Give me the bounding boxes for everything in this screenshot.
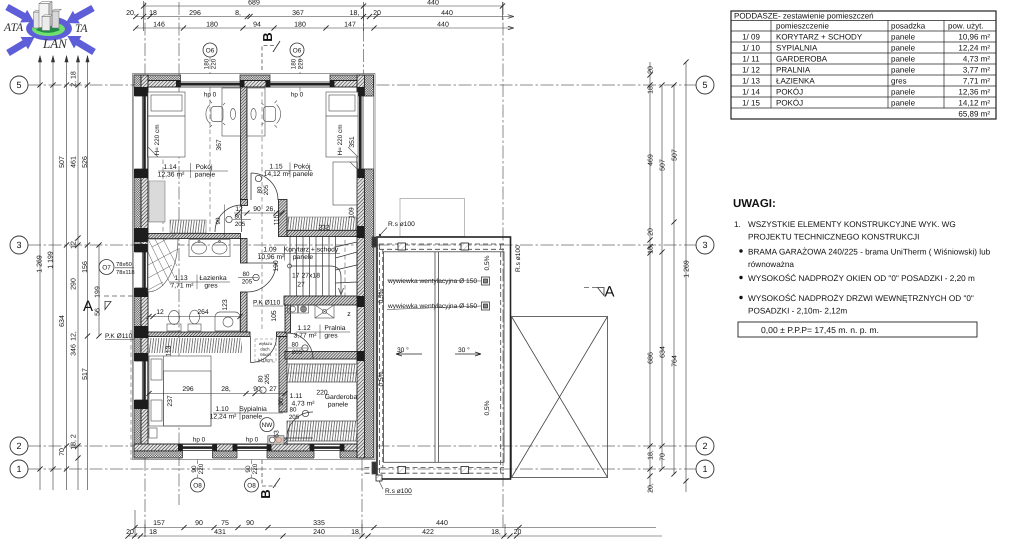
door sypialnia <box>251 337 277 363</box>
wall sypialnia top right piece <box>277 332 288 337</box>
svg-text:90: 90 <box>246 520 254 527</box>
svg-text:1/ 10: 1/ 10 <box>742 44 760 53</box>
svg-text:1/ 13: 1/ 13 <box>742 77 760 86</box>
monitor 1.15 <box>251 109 256 120</box>
svg-text:66cm: 66cm <box>260 352 271 357</box>
desk room 1.14 <box>222 88 241 136</box>
garderoba label <box>290 390 358 409</box>
door label sypialnia <box>258 373 272 393</box>
WINDOW CIRCLES O6 O8 O7 NW <box>99 43 304 492</box>
svg-text:123: 123 <box>222 299 229 311</box>
door label 1.14 <box>226 214 251 229</box>
svg-text:z: z <box>347 311 351 318</box>
logo buildings <box>34 2 62 31</box>
door label garderoba <box>289 407 309 422</box>
svg-text:k118cm: k118cm <box>258 358 273 363</box>
roof ridge lines <box>434 252 436 462</box>
svg-text:PROJEKTU TECHNICZNEGO KONSTRUK: PROJEKTU TECHNICZNEGO KONSTRUKCJI <box>748 233 919 242</box>
svg-text:panele: panele <box>891 55 916 64</box>
svg-text:18,: 18, <box>351 529 361 536</box>
washer pralnia <box>288 305 335 318</box>
svg-text:LAN: LAN <box>42 36 68 51</box>
svg-text:56: 56 <box>95 308 102 316</box>
svg-text:PRALNIA: PRALNIA <box>776 66 811 75</box>
cabinet room 1.15 <box>333 162 357 205</box>
svg-text:80: 80 <box>292 342 299 349</box>
svg-text:P.K Ø110: P.K Ø110 <box>253 300 281 307</box>
svg-text:R.s ø100: R.s ø100 <box>385 488 412 495</box>
svg-text:205: 205 <box>242 279 253 286</box>
svg-text:764: 764 <box>672 355 679 367</box>
gutter channel dashed bottom <box>365 467 505 469</box>
svg-text:1 269: 1 269 <box>37 255 44 273</box>
svg-text:146: 146 <box>153 22 165 29</box>
svg-text:205: 205 <box>235 221 246 228</box>
svg-text:517: 517 <box>82 368 89 380</box>
svg-text:296: 296 <box>189 10 201 17</box>
svg-text:27: 27 <box>269 386 277 393</box>
logo arrow SW <box>4 31 38 59</box>
DOORS <box>215 173 313 438</box>
svg-text:220: 220 <box>252 463 259 474</box>
svg-text:panele: panele <box>891 44 916 53</box>
svg-text:17 27x18: 17 27x18 <box>292 273 320 280</box>
svg-text:dach.: dach. <box>260 347 271 352</box>
svg-text:panele: panele <box>891 33 916 42</box>
svg-text:POSADZKI - 2,10m- 2,12m: POSADZKI - 2,10m- 2,12m <box>748 307 847 316</box>
window left wall sypialnia <box>134 361 148 400</box>
interior dim lines <box>149 213 285 394</box>
svg-text:156: 156 <box>82 261 89 273</box>
LOGO <box>3 1 98 59</box>
svg-text:Korytarz + schody: Korytarz + schody <box>284 247 339 254</box>
svg-text:1.11: 1.11 <box>290 393 303 400</box>
window garderoba bottom <box>314 444 340 459</box>
svg-text:A: A <box>605 284 615 301</box>
svg-text:264: 264 <box>197 309 209 316</box>
svg-text:H= 220 cm: H= 220 cm <box>337 124 344 155</box>
wall pralnia left <box>285 305 291 333</box>
svg-text:POKÓJ: POKÓJ <box>776 88 803 97</box>
svg-text:10,96 m²: 10,96 m² <box>258 254 286 261</box>
nightstand top <box>149 339 157 349</box>
gutter channel dashed top <box>379 243 504 245</box>
svg-text:UWAGI:: UWAGI: <box>733 198 776 210</box>
svg-text:351: 351 <box>349 136 356 148</box>
room 1.15 label <box>264 164 314 179</box>
interior dims <box>156 136 356 438</box>
svg-text:pow. użyt.: pow. użyt. <box>948 22 984 31</box>
wall sypialnia garderoba lower <box>279 438 287 444</box>
svg-text:461: 461 <box>71 156 78 168</box>
corner shower <box>148 239 178 292</box>
svg-text:440: 440 <box>437 22 449 29</box>
svg-text:180: 180 <box>294 22 306 29</box>
door label pralnia <box>288 342 308 357</box>
svg-text:gres: gres <box>891 77 907 86</box>
svg-text:Łazienka: Łazienka <box>199 275 226 282</box>
svg-text:panele: panele <box>293 171 314 178</box>
logo arrow NE <box>62 2 96 30</box>
svg-text:0,5%: 0,5% <box>378 371 385 386</box>
svg-text:346: 346 <box>71 344 78 356</box>
svg-text:hp 0: hp 0 <box>246 437 259 444</box>
svg-text:205: 205 <box>264 373 271 384</box>
bed room 1.14 <box>148 92 185 157</box>
svg-text:hp 0: hp 0 <box>291 92 304 99</box>
svg-text:20,: 20, <box>648 483 655 493</box>
svg-text:20,: 20, <box>126 10 136 17</box>
wall bathroom right lower <box>241 292 248 332</box>
svg-text:1/ 15: 1/ 15 <box>742 99 760 108</box>
svg-text:526: 526 <box>82 156 89 168</box>
svg-text:205: 205 <box>292 349 303 356</box>
svg-text:26,: 26, <box>266 206 276 213</box>
svg-text:1/ 12: 1/ 12 <box>742 66 760 75</box>
double washbasin <box>189 240 230 257</box>
dim line at door 1.14 <box>224 205 226 238</box>
wardrobe garderoba bottom <box>287 421 357 441</box>
door labels <box>215 175 308 421</box>
svg-text:90: 90 <box>278 398 285 406</box>
wall bottom insulation <box>134 451 372 458</box>
svg-text:O6: O6 <box>206 47 215 54</box>
svg-text:20: 20 <box>648 228 655 236</box>
wall between bedrooms <box>241 87 248 200</box>
svg-text:90: 90 <box>245 465 252 473</box>
svg-text:634: 634 <box>660 346 667 358</box>
vertical axis x179 <box>178 2 180 505</box>
grid line 1 <box>28 468 696 470</box>
GRID-LINES <box>28 2 696 537</box>
wall corridor / room 1.15 <box>287 231 357 237</box>
svg-text:gres: gres <box>324 333 338 340</box>
H=220 labels <box>154 124 344 155</box>
STAIRS <box>288 237 358 297</box>
svg-text:O6: O6 <box>293 47 302 54</box>
svg-text:POKÓJ: POKÓJ <box>776 99 803 108</box>
svg-text:12,: 12, <box>71 331 78 341</box>
skylight note <box>255 339 276 363</box>
window left wall room 1.14 <box>134 96 148 169</box>
TABLE <box>731 11 996 119</box>
svg-text:PODDASZE- zestawienie pomieszc: PODDASZE- zestawienie pomieszczeń <box>734 12 874 21</box>
sypialnia label <box>210 406 267 421</box>
logo ellipse green <box>32 22 65 36</box>
UWAGI <box>733 198 991 337</box>
svg-text:440: 440 <box>427 0 439 7</box>
svg-text:205: 205 <box>263 184 270 195</box>
svg-text:0,5%: 0,5% <box>378 288 385 303</box>
svg-text:7,71 m²: 7,71 m² <box>170 283 194 290</box>
svg-text:2: 2 <box>16 441 21 451</box>
svg-text:ŁAZIENKA: ŁAZIENKA <box>776 77 815 86</box>
svg-text:78x118: 78x118 <box>116 269 135 276</box>
svg-text:1.10: 1.10 <box>215 406 228 413</box>
svg-text:WYSOKOŚĆ NADPROŻY DRZWI WEWNĘT: WYSOKOŚĆ NADPROŻY DRZWI WEWNĘTRZNYCH OD … <box>748 293 974 303</box>
svg-text:O8: O8 <box>247 482 256 489</box>
vertical axis x145 bottom <box>144 458 146 537</box>
dark wall junction blocks <box>134 81 365 452</box>
bathroom label <box>170 275 226 290</box>
gutter channel dashed right <box>500 244 502 473</box>
svg-text:14,12 m²: 14,12 m² <box>958 99 990 108</box>
svg-text:80: 80 <box>290 407 297 414</box>
BOTTOM DIMENSION ROWS <box>128 510 662 537</box>
WINDOWS <box>134 74 374 459</box>
svg-text:30 °: 30 ° <box>458 347 470 354</box>
svg-text:507: 507 <box>59 156 66 168</box>
svg-text:507: 507 <box>672 149 679 161</box>
svg-text:1/ 11: 1/ 11 <box>742 55 760 64</box>
svg-text:30 °: 30 ° <box>397 347 409 354</box>
svg-text:180: 180 <box>206 22 218 29</box>
interior walls <box>148 87 357 444</box>
svg-text:440: 440 <box>436 520 448 527</box>
bidet <box>167 324 181 331</box>
svg-text:199: 199 <box>95 286 102 298</box>
svg-text:90: 90 <box>215 217 222 224</box>
svg-text:440: 440 <box>441 10 453 17</box>
svg-text:94: 94 <box>253 22 261 29</box>
svg-text:ATA: ATA <box>3 22 24 34</box>
svg-text:1.: 1. <box>734 220 741 229</box>
svg-text:12,: 12, <box>71 239 78 249</box>
P.K labels <box>105 300 283 341</box>
svg-text:80: 80 <box>243 271 250 278</box>
door room 1.15 <box>251 173 278 200</box>
wall sypialnia garderoba upper <box>279 337 287 413</box>
svg-text:panele: panele <box>328 402 349 409</box>
svg-text:3,77 m²: 3,77 m² <box>963 66 990 75</box>
svg-text:12,36 m²: 12,36 m² <box>158 172 186 179</box>
FURNITURE <box>148 88 358 438</box>
svg-text:367: 367 <box>292 10 304 17</box>
window left wall bathroom <box>134 252 148 288</box>
wall right inner <box>357 75 365 458</box>
svg-text:157: 157 <box>153 520 165 527</box>
svg-text:220: 220 <box>211 58 218 69</box>
wall top inner <box>134 81 374 88</box>
svg-text:panele: panele <box>891 99 916 108</box>
svg-text:B: B <box>258 489 273 498</box>
double bed sypialnia <box>149 356 211 426</box>
svg-text:220: 220 <box>198 463 205 474</box>
svg-text:18: 18 <box>149 10 157 17</box>
svg-text:R.s ø100: R.s ø100 <box>515 245 522 272</box>
window O8 left bottom <box>183 444 213 459</box>
svg-text:O8: O8 <box>193 482 202 489</box>
svg-text:P.K Ø110: P.K Ø110 <box>105 333 133 340</box>
gutter channel dashed left <box>379 244 381 473</box>
pralnia label <box>293 325 345 340</box>
svg-text:GARDEROBA: GARDEROBA <box>776 55 828 64</box>
svg-text:gres: gres <box>204 283 218 290</box>
svg-text:pomieszczenie: pomieszczenie <box>776 22 829 31</box>
svg-text:290: 290 <box>71 278 78 290</box>
door label 1.15 rotated <box>255 175 270 195</box>
svg-text:63: 63 <box>274 430 281 438</box>
wardrobe garderoba top <box>287 364 357 382</box>
svg-text:20: 20 <box>514 529 522 536</box>
svg-text:12,24 m²: 12,24 m² <box>958 44 990 53</box>
svg-text:BRAMA GARAŻOWA 240/225 - brama: BRAMA GARAŻOWA 240/225 - brama UniTherm … <box>748 247 991 257</box>
svg-text:WYSOKOŚĆ NADPROŻY OKIEN OD "0": WYSOKOŚĆ NADPROŻY OKIEN OD "0" POSADZKI … <box>748 273 975 283</box>
svg-text:1.14: 1.14 <box>163 164 176 171</box>
dormer outline above roof <box>400 199 465 237</box>
radiator 1.14 left <box>149 181 165 222</box>
logo arrow SE <box>64 30 98 58</box>
monitor 1.14 <box>230 109 235 120</box>
svg-text:Sypialnia: Sypialnia <box>239 406 267 413</box>
svg-text:180: 180 <box>204 58 211 69</box>
wall bathroom right upper <box>241 239 248 264</box>
svg-text:10,96 m²: 10,96 m² <box>958 33 990 42</box>
wall bathroom bottom <box>148 332 250 337</box>
svg-text:634: 634 <box>59 315 66 327</box>
svg-text:hp 0: hp 0 <box>193 437 206 444</box>
svg-text:NW: NW <box>262 422 274 429</box>
svg-text:431: 431 <box>214 529 226 536</box>
svg-text:1.12: 1.12 <box>297 325 310 332</box>
window axes dashed <box>131 57 345 478</box>
door bathroom <box>247 263 276 292</box>
svg-text:335: 335 <box>313 520 325 527</box>
svg-text:1.13: 1.13 <box>174 275 187 282</box>
svg-text:4,73 m²: 4,73 m² <box>963 55 990 64</box>
door garderoba <box>287 412 313 438</box>
radiator 1.14 bottom <box>170 220 206 233</box>
svg-text:90: 90 <box>191 465 198 473</box>
svg-text:296: 296 <box>182 386 194 393</box>
logo arrow NW <box>4 1 38 29</box>
svg-text:1/ 14: 1/ 14 <box>742 88 760 97</box>
svg-text:R.s ø100: R.s ø100 <box>388 221 415 228</box>
svg-text:8,: 8, <box>235 10 241 17</box>
svg-text:689: 689 <box>248 0 260 7</box>
svg-text:205: 205 <box>289 414 300 421</box>
svg-text:686: 686 <box>648 352 655 364</box>
door jamb corridor <box>279 200 288 237</box>
svg-text:wywiewka wentylacyjna Ø 150: wywiewka wentylacyjna Ø 150 <box>387 278 477 285</box>
svg-text:H= 220 cm: H= 220 cm <box>154 124 161 155</box>
wall left inner <box>141 75 148 458</box>
svg-text:3: 3 <box>16 240 21 250</box>
grid line 3 <box>28 244 696 246</box>
roof outer rect <box>377 237 511 479</box>
svg-text:422: 422 <box>422 529 434 536</box>
svg-text:Pokój: Pokój <box>293 164 310 171</box>
ROOF LABELS <box>378 221 522 495</box>
svg-text:220: 220 <box>298 58 305 69</box>
svg-text:12,36 m²: 12,36 m² <box>958 88 990 97</box>
svg-text:2, 18: 2, 18 <box>71 71 78 87</box>
svg-text:posadzka: posadzka <box>891 22 926 31</box>
washbasin unit sypialnia <box>268 436 284 445</box>
window O6 right top <box>270 74 330 88</box>
RIGHT DIMENSION LINES <box>650 62 686 492</box>
svg-text:WSZYSTKIE ELEMENTY KONSTRUKCYJ: WSZYSTKIE ELEMENTY KONSTRUKCYJNE WYK. WG <box>748 220 956 229</box>
svg-text:232: 232 <box>318 225 330 232</box>
svg-text:panele: panele <box>195 172 216 179</box>
window O8 mid bottom <box>237 444 267 459</box>
svg-text:90: 90 <box>253 206 261 213</box>
svg-text:1.09: 1.09 <box>263 247 276 254</box>
WALLS <box>134 75 374 458</box>
svg-text:190: 190 <box>273 260 280 272</box>
svg-text:113: 113 <box>166 345 173 356</box>
svg-text:27: 27 <box>297 282 305 289</box>
svg-text:28,: 28, <box>221 386 231 393</box>
svg-text:panele: panele <box>891 88 916 97</box>
svg-text:hp 0: hp 0 <box>204 92 217 99</box>
svg-text:12: 12 <box>156 309 164 316</box>
svg-text:90: 90 <box>195 520 203 527</box>
svg-text:18: 18 <box>149 529 157 536</box>
svg-text:20: 20 <box>648 66 655 74</box>
BATHROOM fixtures <box>148 233 240 331</box>
svg-text:3,77 m²: 3,77 m² <box>293 333 317 340</box>
svg-text:75: 75 <box>221 520 229 527</box>
svg-text:70: 70 <box>660 453 667 461</box>
toilet <box>188 324 201 331</box>
desk room 1.15 <box>247 88 266 136</box>
svg-text:507: 507 <box>660 159 667 171</box>
svg-text:Garderoba: Garderoba <box>325 394 358 401</box>
corner bathtub <box>215 312 240 331</box>
svg-text:Pokój: Pokój <box>195 164 212 171</box>
svg-text:SYPIALNIA: SYPIALNIA <box>776 44 818 53</box>
svg-text:1: 1 <box>16 464 21 474</box>
svg-text:18,: 18, <box>648 450 655 460</box>
LEFT DIMENSION LINES <box>38 56 99 490</box>
svg-text:65,89 m²: 65,89 m² <box>958 110 990 119</box>
svg-text:5: 5 <box>16 80 21 90</box>
window size labels rotated <box>191 58 305 474</box>
chair room 1.15 <box>264 107 276 122</box>
roof connection blocks <box>372 237 377 247</box>
svg-text:5: 5 <box>702 80 707 90</box>
hp labels <box>193 92 304 444</box>
room 1.14 label <box>158 164 216 179</box>
outer finish outline <box>133 74 376 460</box>
corridor label <box>258 247 339 262</box>
svg-text:wyłazu: wyłazu <box>259 341 273 346</box>
svg-text:18, 2: 18, 2 <box>71 434 78 450</box>
svg-text:1.15: 1.15 <box>269 164 282 171</box>
window O6 left top <box>181 74 241 88</box>
logo ground <box>36 26 60 33</box>
svg-text:14,12 m²: 14,12 m² <box>264 171 292 178</box>
wall right insulation <box>365 75 374 458</box>
svg-text:3: 3 <box>702 240 707 250</box>
grid line 5 <box>28 84 696 86</box>
svg-text:0,5%: 0,5% <box>484 255 491 270</box>
svg-text:70: 70 <box>59 448 66 456</box>
svg-text:18,: 18, <box>648 244 655 254</box>
svg-text:109: 109 <box>349 207 356 219</box>
chair room 1.14 <box>211 107 223 122</box>
roof inner rect <box>384 252 505 462</box>
ROOM LABELS <box>158 163 358 421</box>
svg-text:TA: TA <box>75 23 89 35</box>
svg-text:12,24 m²: 12,24 m² <box>210 414 238 421</box>
svg-text:0,00 ± P.P.P= 17,45 m. n. p. m: 0,00 ± P.P.P= 17,45 m. n. p. m. <box>761 325 879 335</box>
svg-text:równoważna: równoważna <box>748 260 794 269</box>
svg-text:1 269: 1 269 <box>684 260 691 278</box>
svg-text:18,: 18, <box>491 529 501 536</box>
svg-text:115: 115 <box>274 214 281 225</box>
